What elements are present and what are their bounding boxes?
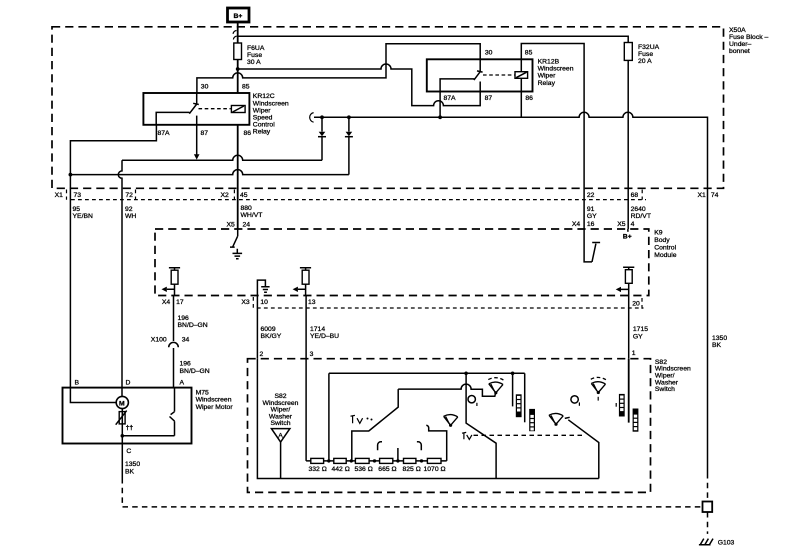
wiper icon slow-wipe (right assembly) bbox=[549, 413, 563, 425]
selector feed line to wash/wipe contact bbox=[398, 384, 495, 396]
svg-text:4: 4 bbox=[631, 221, 635, 228]
svg-text:1: 1 bbox=[632, 350, 636, 357]
svg-text:Under–: Under– bbox=[729, 41, 752, 48]
wire 92 WH drop to pin 72 (hops wire 95) bbox=[118, 160, 122, 396]
mechanical link dashed line bbox=[474, 434, 584, 436]
svg-text:Control: Control bbox=[654, 244, 676, 251]
wire 1715 GY from K9 pin 20 to S82 pin 1 bbox=[628, 296, 630, 359]
relay KR12C box bbox=[143, 93, 249, 125]
svg-text:95: 95 bbox=[73, 206, 81, 213]
wire F6UA output down to relay KR12C pin 85 bbox=[237, 60, 239, 94]
KR12B coil actuation dashes bbox=[483, 74, 514, 76]
svg-text:Switch: Switch bbox=[655, 386, 675, 393]
position icon O (right assembly) bbox=[571, 396, 580, 406]
svg-text:K9: K9 bbox=[654, 229, 663, 236]
K9 lower connector face dashed line bbox=[257, 307, 644, 309]
KR12C switch arm with pivot tick bbox=[189, 93, 199, 114]
svg-text:87: 87 bbox=[201, 130, 209, 137]
motor M symbol bbox=[116, 396, 128, 408]
ladder contact hook 2 bbox=[417, 442, 421, 450]
ladder junction nodes bbox=[327, 459, 423, 462]
ground splice box bbox=[703, 502, 713, 513]
svg-text:2640: 2640 bbox=[631, 206, 646, 213]
ladder contact tap bbox=[397, 448, 399, 460]
svg-text:536 Ω: 536 Ω bbox=[355, 466, 373, 473]
K9 internal switch on pin X5-24 bbox=[230, 229, 238, 247]
svg-text:73: 73 bbox=[74, 192, 82, 199]
svg-text:BN/D–GN: BN/D–GN bbox=[178, 322, 208, 329]
wire label 196 BN/D-GN upper bbox=[178, 315, 208, 329]
svg-text:WH/VT: WH/VT bbox=[241, 212, 263, 219]
wire 880 WH/VT relay KR12C coil to BCM pin 24 bbox=[237, 125, 239, 229]
svg-text:Wiper Motor: Wiper Motor bbox=[196, 404, 234, 411]
KR12B relay coil bbox=[515, 72, 528, 79]
K9 internal switch on pin X4-16 bbox=[584, 229, 600, 262]
svg-text:3: 3 bbox=[310, 351, 314, 358]
relay KR12B box bbox=[427, 59, 533, 91]
svg-text:A: A bbox=[278, 432, 283, 439]
ladder resistor 442 bbox=[334, 458, 346, 463]
svg-text:KR12B: KR12B bbox=[538, 59, 560, 66]
svg-text:74: 74 bbox=[711, 192, 719, 199]
svg-text:17: 17 bbox=[176, 299, 184, 306]
svg-text:Switch: Switch bbox=[270, 420, 290, 427]
svg-text:X4: X4 bbox=[162, 299, 171, 306]
ladder resistor 332 bbox=[311, 458, 324, 463]
svg-text:BK: BK bbox=[125, 468, 135, 475]
node detent rail junction bbox=[511, 372, 515, 376]
wire 6009 BK/GY from K9 pin X3-10 to S82 pin 2 bbox=[256, 296, 258, 359]
M75 internal wire to pin C bbox=[122, 436, 174, 444]
intermittent symbol Tv (left) bbox=[351, 415, 373, 423]
svg-text:24: 24 bbox=[243, 222, 251, 229]
node selector pivot bbox=[464, 372, 468, 376]
svg-text:86: 86 bbox=[525, 95, 533, 102]
S82 switch label (right) bbox=[655, 359, 691, 393]
connector row X1/X2 pin separators bbox=[67, 190, 643, 200]
svg-text:20 A: 20 A bbox=[638, 58, 652, 65]
selector top rail bbox=[329, 372, 525, 374]
wire A: F6UA output to KR12B pin 87 bbox=[238, 64, 481, 106]
svg-text:A: A bbox=[180, 379, 185, 386]
inline connector hook on ground bus bbox=[310, 113, 314, 123]
ladder resistor 1070 bbox=[427, 458, 441, 463]
svg-text:1715: 1715 bbox=[633, 326, 648, 333]
K9 internal ground on pin X3-10 bbox=[257, 280, 269, 295]
svg-text:X5: X5 bbox=[617, 221, 626, 228]
body control module K9 dashed box bbox=[155, 229, 649, 296]
svg-text:Module: Module bbox=[654, 252, 677, 259]
wire label 92 WH bbox=[125, 206, 136, 220]
svg-text:Control: Control bbox=[253, 122, 275, 129]
S82 wire from pin 3 to resistor ladder bbox=[305, 359, 307, 461]
svg-text:92: 92 bbox=[125, 206, 133, 213]
svg-text:RD/VT: RD/VT bbox=[631, 213, 651, 220]
M75 thermal protector bbox=[116, 409, 127, 436]
svg-text:13: 13 bbox=[308, 299, 316, 306]
inline connector on B+ feed wire bbox=[233, 31, 237, 40]
svg-text:X100: X100 bbox=[151, 337, 167, 344]
wire F32UA output to connector pin 68 bbox=[627, 60, 629, 229]
wire from B+ to fuse F6UA bbox=[237, 23, 239, 44]
M75 motor label bbox=[196, 390, 234, 411]
svg-text:B: B bbox=[75, 379, 80, 386]
svg-text:72: 72 bbox=[125, 192, 133, 199]
wire B: KR12C pin30 feed to KR12B pin 30 bbox=[197, 44, 480, 93]
svg-text:87: 87 bbox=[485, 95, 493, 102]
svg-text:87A: 87A bbox=[158, 130, 171, 137]
BCM connector pin label X5 4 bbox=[617, 221, 634, 228]
svg-text:87A: 87A bbox=[444, 95, 457, 102]
svg-text:1350: 1350 bbox=[125, 461, 140, 468]
inline connector X100 bbox=[169, 342, 179, 347]
svg-text:Relay: Relay bbox=[253, 129, 271, 136]
svg-text:1350: 1350 bbox=[712, 335, 727, 342]
washer switch reference triangle A bbox=[271, 429, 290, 479]
S82 switch label (inner) bbox=[263, 393, 299, 427]
svg-text:YE/D–BU: YE/D–BU bbox=[310, 333, 339, 340]
ground bus wire 1350 BK to pin 74 bbox=[314, 112, 708, 473]
svg-text:Speed: Speed bbox=[253, 115, 273, 122]
relay KR12C label bbox=[253, 93, 289, 136]
ladder resistor 665 bbox=[380, 458, 393, 463]
svg-text:F6UA: F6UA bbox=[247, 45, 265, 52]
fuse F6UA bbox=[234, 43, 265, 66]
wire C: KR12B coil pin85 to connector pin 22 bbox=[521, 44, 584, 230]
BCM connector pin label X4 16 bbox=[572, 221, 595, 228]
ladder contact hook 1 bbox=[378, 442, 382, 450]
svg-text:16: 16 bbox=[587, 221, 595, 228]
svg-text:825 Ω: 825 Ω bbox=[403, 466, 421, 473]
svg-text:Body: Body bbox=[654, 237, 670, 244]
svg-text:91: 91 bbox=[587, 206, 595, 213]
svg-text:X3: X3 bbox=[241, 299, 250, 306]
connector face dashed line bbox=[71, 199, 646, 201]
battery terminal B+ box bbox=[228, 8, 250, 22]
diode D2 bbox=[345, 115, 353, 174]
svg-text:880: 880 bbox=[241, 205, 253, 212]
svg-text:BN/D–GN: BN/D–GN bbox=[180, 368, 210, 375]
wire label 196 BN/D-GN lower bbox=[180, 361, 210, 375]
svg-text:332 Ω: 332 Ω bbox=[309, 466, 327, 473]
svg-text:BK/GY: BK/GY bbox=[261, 333, 282, 340]
svg-text:30: 30 bbox=[201, 84, 209, 91]
wiper motor M75 box bbox=[63, 388, 192, 444]
svg-text:20: 20 bbox=[632, 301, 640, 308]
wire label 95 YE/BN bbox=[73, 206, 93, 220]
node F6UA output junction bbox=[236, 67, 240, 71]
svg-text:C: C bbox=[126, 448, 131, 455]
node 95 YE/BN junction bbox=[69, 173, 73, 177]
svg-text:34: 34 bbox=[182, 337, 190, 344]
ladder tap wire to selector top rail bbox=[328, 373, 330, 461]
svg-text:X1: X1 bbox=[698, 192, 707, 199]
wire 196 BN/D-GN from K9 pin 17 through X100 to motor pin A bbox=[173, 296, 175, 388]
svg-text:D: D bbox=[126, 379, 131, 386]
svg-text:196: 196 bbox=[180, 361, 192, 368]
svg-text:2: 2 bbox=[260, 351, 264, 358]
svg-text:X4: X4 bbox=[572, 221, 581, 228]
svg-text:KR12C: KR12C bbox=[253, 93, 275, 100]
svg-text:F32UA: F32UA bbox=[638, 44, 660, 51]
intermittent symbol Tv (right) bbox=[462, 432, 472, 439]
dashed wire 1350 BK to splice bbox=[122, 478, 702, 507]
svg-text:Windscreen: Windscreen bbox=[196, 397, 232, 404]
svg-text:10: 10 bbox=[260, 299, 268, 306]
dashed wire pin74 to splice bbox=[707, 473, 709, 502]
svg-text:442 Ω: 442 Ω bbox=[332, 466, 350, 473]
svg-text:85: 85 bbox=[242, 84, 250, 91]
wire label 91 GY bbox=[587, 206, 597, 220]
wire B+ feed to fuse F32UA bbox=[238, 36, 629, 42]
svg-text:85: 85 bbox=[525, 50, 533, 57]
wire 2640 B+ stub into K9 bbox=[627, 229, 629, 232]
K9 internal ground symbol bbox=[233, 249, 243, 259]
wire label 1715 GY bbox=[633, 326, 648, 340]
fuse block X50A dashed border bbox=[52, 27, 724, 189]
svg-text:Wiper: Wiper bbox=[538, 73, 556, 80]
K9 sense resistor on pin 20 bbox=[616, 267, 635, 295]
node motor C junction bbox=[121, 434, 125, 438]
ladder resistor 825 bbox=[404, 458, 416, 463]
S82 common wire from pin 2 bbox=[257, 359, 598, 479]
svg-text:WH: WH bbox=[125, 213, 136, 220]
KR12C contact 87A bbox=[156, 112, 189, 124]
selector arm (right assembly) bbox=[565, 417, 599, 478]
svg-text:GY: GY bbox=[633, 333, 643, 340]
svg-text:1070 Ω: 1070 Ω bbox=[424, 466, 446, 473]
ladder right end contact bbox=[426, 425, 446, 461]
K9 sense resistor on pin 13 bbox=[293, 268, 312, 296]
K9 lower connector pin separators bbox=[253, 297, 642, 310]
svg-text:68: 68 bbox=[631, 192, 639, 199]
detent rail left drop bbox=[512, 373, 514, 406]
detent track bar (left pair, right) bbox=[529, 409, 535, 431]
wire KR12B pin 86 to ground line bbox=[520, 78, 522, 117]
node 87A/ground junction bbox=[438, 115, 442, 119]
ground G103 symbol bbox=[699, 539, 713, 545]
KR12C contact 87 stub bbox=[196, 116, 198, 125]
svg-text:bonnet: bonnet bbox=[729, 48, 750, 55]
detent track bar (right pair, left) bbox=[619, 394, 625, 417]
M75 internal wire pin B to motor bbox=[70, 388, 116, 403]
svg-text:M75: M75 bbox=[196, 390, 209, 397]
svg-text:30 A: 30 A bbox=[247, 59, 261, 66]
svg-text:X5: X5 bbox=[227, 222, 236, 229]
svg-text:Relay: Relay bbox=[538, 80, 556, 87]
wire 1350 BK from motor pin C bbox=[121, 444, 123, 479]
resistor value labels bbox=[309, 466, 446, 473]
svg-text:30: 30 bbox=[485, 50, 493, 57]
svg-text:1714: 1714 bbox=[310, 326, 325, 333]
wiper icon slow-wipe (left assembly) bbox=[444, 415, 458, 427]
KR12B contact 87 stub bbox=[479, 82, 481, 92]
diode D1 bbox=[318, 115, 326, 160]
KR12C relay coil bbox=[231, 106, 245, 113]
wiper icon fast-wipe (right assembly) bbox=[591, 377, 606, 400]
ladder resistor 536 bbox=[355, 458, 369, 463]
svg-text:M: M bbox=[119, 400, 125, 407]
svg-text:GY: GY bbox=[587, 213, 597, 220]
wire KR12B pin 87A to ground line bbox=[439, 92, 441, 118]
wire label 1714 YE/D-BU bbox=[310, 326, 339, 340]
svg-text:BK: BK bbox=[712, 342, 722, 349]
BCM connector pin label X5 24 bbox=[227, 222, 251, 229]
selector arm (left assembly) bbox=[466, 373, 496, 478]
svg-text:86: 86 bbox=[244, 130, 252, 137]
wire label 1350 BK (right) bbox=[712, 335, 727, 349]
resistor ladder baseline bbox=[306, 460, 447, 462]
svg-text:X2: X2 bbox=[221, 192, 230, 199]
detent track bar (left pair, left) bbox=[516, 394, 522, 417]
M75 park switch on pin A bbox=[170, 388, 175, 436]
K9 module label bbox=[654, 229, 677, 259]
K9 sense resistor on pin X4-17 bbox=[162, 268, 181, 296]
wire 92 WH horizontal (KR12C 87 circuit) bbox=[122, 155, 322, 160]
svg-text:196: 196 bbox=[178, 315, 190, 322]
svg-text:22: 22 bbox=[587, 192, 595, 199]
svg-text:B+: B+ bbox=[234, 13, 243, 20]
wire KR12C pin 87 drop with arrow junction bbox=[196, 125, 198, 155]
KR12B switch arm with pivot tick bbox=[474, 59, 483, 80]
detent contact nib (right assembly) bbox=[615, 403, 617, 407]
svg-text:665 Ω: 665 Ω bbox=[378, 466, 396, 473]
svg-text:††: †† bbox=[126, 425, 134, 432]
svg-text:Fuse: Fuse bbox=[247, 52, 262, 59]
wiper/washer switch S82 dashed box bbox=[248, 359, 651, 493]
svg-text:45: 45 bbox=[240, 192, 248, 199]
svg-text:X1: X1 bbox=[55, 192, 64, 199]
svg-text:G103: G103 bbox=[718, 540, 735, 547]
svg-text:X50A: X50A bbox=[729, 27, 746, 34]
wire 1714 YE/D-BU from K9 pin 13 to S82 pin 3 bbox=[305, 296, 307, 359]
svg-text:Fuse Block –: Fuse Block – bbox=[729, 34, 769, 41]
svg-text:Wiper: Wiper bbox=[253, 107, 271, 114]
KR12B contact 87A bbox=[440, 79, 474, 92]
svg-text:Windscreen: Windscreen bbox=[253, 100, 289, 107]
relay KR12B label bbox=[538, 59, 574, 87]
wire label 2640 RD/VT bbox=[631, 206, 651, 220]
wire label 6009 BK/GY bbox=[261, 326, 282, 340]
wiper icon fast-wipe bbox=[488, 378, 503, 395]
wire S82 pin 1 common bbox=[628, 359, 630, 423]
fuse F32UA bbox=[624, 43, 659, 66]
detent track bar (right pair, right) bbox=[633, 409, 639, 432]
position icon O (left assembly) bbox=[468, 396, 477, 407]
wire 95 YE/BN horizontal (KR12C 87A circuit) bbox=[70, 170, 349, 175]
wire label 880 WH/VT bbox=[241, 205, 263, 219]
wire label 1350 BK (motor) bbox=[125, 461, 140, 475]
dashed wire splice to ground bbox=[707, 512, 709, 534]
svg-text:B+: B+ bbox=[623, 233, 632, 240]
wire KR12C pin 87A to pin 73 and motor B bbox=[70, 125, 156, 388]
detent rail right drop bbox=[524, 373, 526, 422]
svg-text:Windscreen: Windscreen bbox=[538, 66, 574, 73]
svg-text:YE/BN: YE/BN bbox=[73, 213, 93, 220]
X50A fuse block label bbox=[729, 27, 769, 55]
wiper mode selector arm (ladder side) bbox=[352, 389, 398, 461]
svg-text:6009: 6009 bbox=[261, 326, 276, 333]
svg-text:Fuse: Fuse bbox=[638, 51, 653, 58]
KR12C coil actuation dashes bbox=[199, 108, 231, 110]
